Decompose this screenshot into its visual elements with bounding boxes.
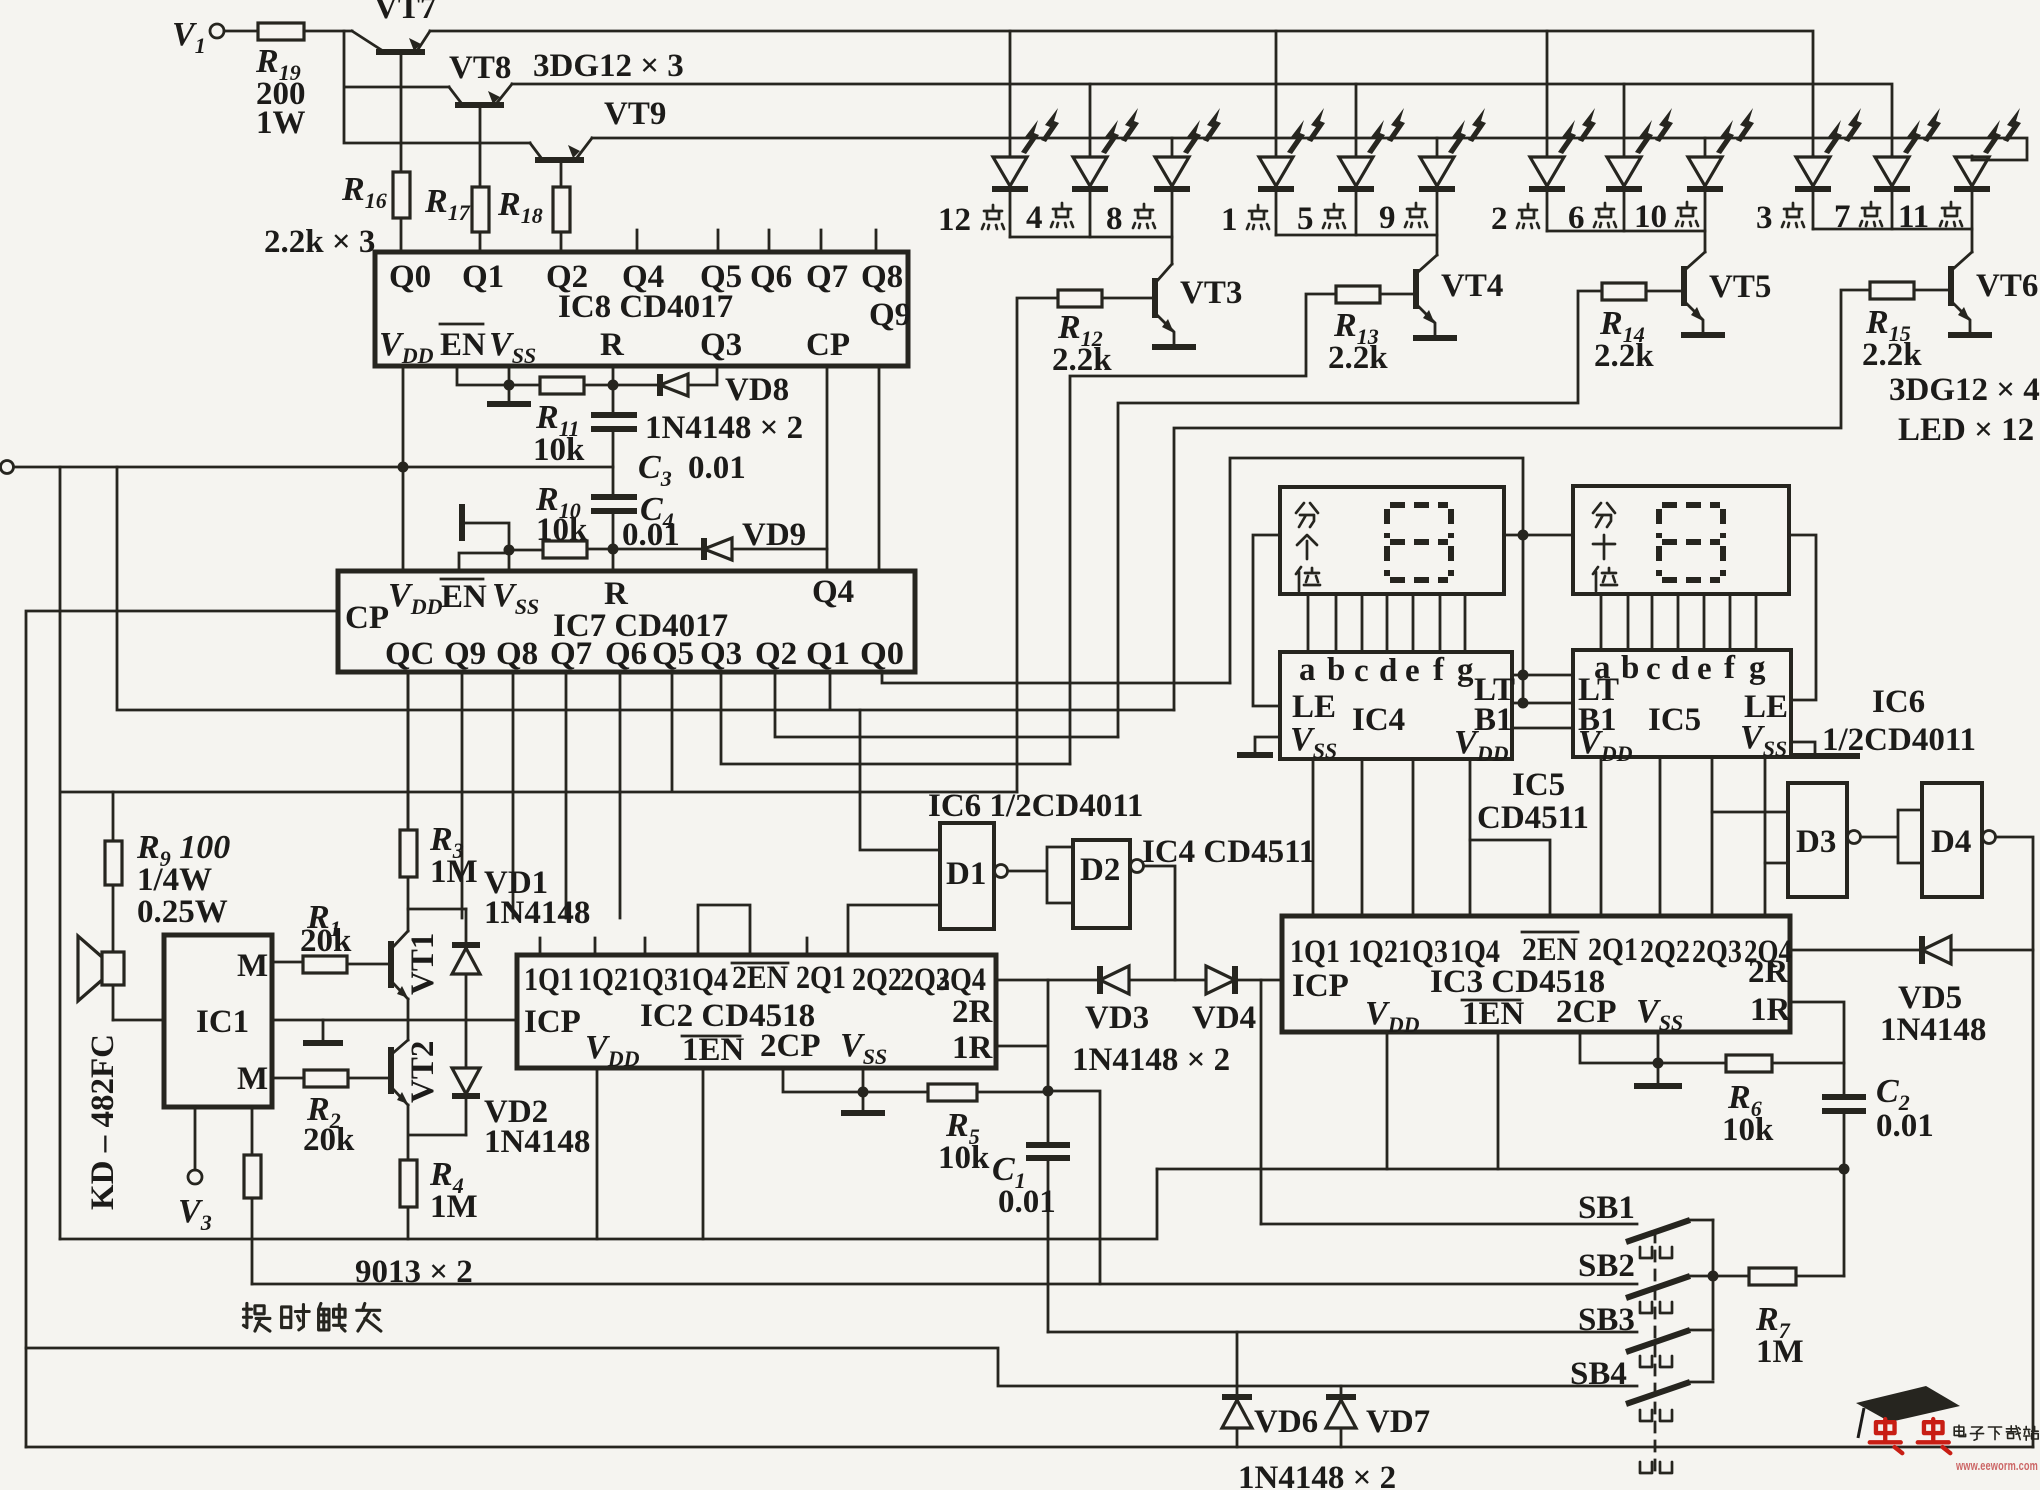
junction C1 node (1043, 1086, 1054, 1097)
svg-text:f: f (1724, 650, 1736, 686)
svg-text:b: b (1327, 652, 1345, 688)
junction B1 (1518, 698, 1529, 709)
svg-text:2Q2: 2Q2 (852, 962, 902, 998)
NAND gate D4 (1922, 783, 1982, 897)
wire R4 to bottom rail (407, 1207, 410, 1239)
resistor R13 2.2k (1336, 286, 1380, 303)
wire to R10 (509, 549, 543, 552)
wire VDD tie (1512, 727, 1573, 730)
svg-text:VD3: VD3 (1085, 1000, 1149, 1036)
svg-text:1Q3: 1Q3 (628, 962, 678, 998)
wire display1 segment pins (1308, 594, 1465, 652)
wire D2 out to IC3 ICP line (1144, 866, 1175, 980)
junction C2 bottom (1839, 1164, 1850, 1175)
wire IC3 2EN tie to 1Q4 (1470, 840, 1550, 916)
svg-text:f: f (1433, 652, 1445, 688)
wire IC7 Q0 line (882, 672, 1230, 683)
resistor R9 (112, 792, 115, 841)
svg-text:LED × 12: LED × 12 (1898, 412, 2034, 448)
LED 6dian (1606, 108, 1673, 231)
wire cathode bus group4 (1813, 229, 1972, 252)
svg-text:R: R (600, 327, 625, 363)
diode VD4 (1192, 966, 1282, 1036)
diode VD2 (452, 1020, 590, 1160)
terminal V3 (194, 1107, 197, 1170)
svg-text:1N4148: 1N4148 (484, 895, 590, 931)
wire display common feed from Q0 line (1230, 458, 1523, 703)
svg-text:1/4W: 1/4W (137, 862, 212, 898)
IC5 CD4511 box (1573, 650, 1791, 757)
wire VT1 emitter to VT2 collector (407, 999, 410, 1040)
wire IC3 2R to VD5 (1790, 949, 1920, 952)
svg-text:2: 2 (1491, 201, 1508, 237)
svg-text:Q0: Q0 (860, 636, 904, 672)
svg-text:Q1: Q1 (462, 259, 504, 295)
wire IC7 Q5 line (60, 467, 1017, 1239)
svg-text:20k: 20k (303, 1122, 355, 1158)
svg-text:2R: 2R (952, 994, 994, 1030)
svg-text:1Q4: 1Q4 (678, 962, 728, 998)
svg-text:SB2: SB2 (1578, 1248, 1635, 1284)
transistor VT1 (391, 931, 441, 999)
svg-text:10k: 10k (536, 512, 588, 548)
svg-text:EN: EN (440, 327, 486, 363)
wire IC3 2CP/VSS node (1580, 1032, 1658, 1063)
LED 11dian (1954, 108, 2021, 229)
svg-text:CD4511: CD4511 (1477, 800, 1589, 836)
resistor R12 2.2k (1058, 290, 1102, 307)
svg-text:D1: D1 (946, 856, 986, 892)
svg-text:1W: 1W (256, 105, 306, 141)
IC7 CD4017 box (338, 571, 915, 672)
svg-text:IC6 1/2CD4011: IC6 1/2CD4011 (928, 788, 1143, 824)
svg-text:VT2: VT2 (405, 1041, 441, 1103)
LED 4dian anode (1089, 84, 1092, 156)
wire IC7 Q6 stub (619, 672, 622, 918)
LED 2dian anode (1546, 31, 1549, 156)
wire cathode bus group3 (1547, 231, 1705, 252)
svg-text:Q4: Q4 (812, 574, 854, 610)
IC8 unused top stubs Q4-Q8 (637, 230, 876, 252)
svg-text:2Q3: 2Q3 (1692, 934, 1742, 970)
capacitor C1 (992, 1091, 1070, 1332)
svg-text:1N4148 × 2: 1N4148 × 2 (645, 410, 803, 446)
svg-text:D4: D4 (1931, 824, 1971, 860)
svg-text:3: 3 (1756, 200, 1773, 236)
ground IC3 VSS (1657, 1063, 1660, 1082)
wire VT1 collector node to VD1 (408, 908, 466, 911)
svg-text:CP: CP (806, 327, 850, 363)
transistor VT6 (1948, 252, 2038, 335)
speaker (112, 885, 115, 952)
resistor R18 (553, 187, 570, 232)
svg-text:VT4: VT4 (1441, 268, 1503, 304)
capacitor C4 (591, 491, 680, 553)
svg-text:SB1: SB1 (1578, 1190, 1635, 1226)
wire R7 to C2 column (1796, 1275, 1844, 1278)
wire D3 input1 from IC5 c column (1712, 811, 1788, 814)
svg-text:d: d (1379, 653, 1397, 689)
svg-text:IC5: IC5 (1512, 767, 1565, 803)
svg-text:1Q2: 1Q2 (1348, 934, 1398, 970)
wire R19 to VT7 base node (304, 30, 352, 33)
switch actuator dashed link (1654, 1232, 1657, 1475)
wire IC2 1Q4-2EN bridge (698, 905, 750, 955)
wire IC7 Q8 stub (512, 672, 515, 918)
wire display commons tie (1504, 534, 1573, 537)
NAND gate D2 (1073, 840, 1130, 928)
wire rail2 from VT8 (512, 84, 1892, 156)
svg-text:Q0: Q0 (389, 259, 431, 295)
svg-text:0.01: 0.01 (998, 1184, 1056, 1220)
wire D3 input2 from IC5 d column (1765, 862, 1788, 865)
ground at IC8 VSS (508, 385, 511, 401)
wire R6 to C2 column (1772, 1062, 1844, 1065)
resistor R14 2.2k (1602, 283, 1646, 300)
IC8 CD4017 box (375, 252, 908, 366)
svg-text:B1: B1 (1474, 702, 1513, 738)
wire QC to R3 (407, 672, 410, 830)
svg-text:1M: 1M (430, 1189, 478, 1225)
svg-text:2Q2: 2Q2 (1640, 934, 1690, 970)
open pin marker near IC7 EN (459, 504, 465, 541)
wire D1 input2 from IC2 2Q2 (848, 905, 940, 955)
wire IC8 EN to reset line (457, 366, 540, 385)
resistor R10 10k (543, 541, 587, 558)
wire R15 to VT6 base (1914, 289, 1949, 292)
svg-text:1M: 1M (430, 854, 478, 890)
svg-text:0.01: 0.01 (1876, 1108, 1934, 1144)
wire IC7 R stub (612, 549, 615, 571)
wire IC3 1EN stub (1497, 1032, 1500, 1169)
svg-text:2.2k: 2.2k (1862, 337, 1922, 373)
svg-text:c: c (1646, 651, 1661, 687)
diode VD9 (704, 517, 827, 560)
LED 7dian anode (1891, 155, 1894, 158)
ground IC4 VSS (1255, 737, 1280, 752)
junction IC2 VSS (858, 1087, 869, 1098)
wire R14 to VT5 base (1646, 290, 1682, 293)
capacitor C3 (591, 385, 746, 496)
IC4 CD4511 box (1280, 652, 1512, 759)
wire IC8 VSS stub (508, 366, 511, 385)
wire R13 to VT4 base (1380, 293, 1414, 296)
wire R5 to C1 node (977, 1091, 1048, 1094)
NAND gate D1 (940, 823, 994, 929)
wire IC8 Q9 to IC7 column (878, 366, 881, 571)
svg-text:3DG12 × 3: 3DG12 × 3 (533, 48, 684, 84)
svg-text:Q7: Q7 (806, 259, 848, 295)
svg-text:R: R (604, 576, 629, 612)
svg-text:b: b (1621, 650, 1639, 686)
wire speaker to IC1 (113, 1019, 164, 1022)
svg-text:e: e (1697, 651, 1712, 687)
svg-text:CP: CP (345, 600, 389, 636)
svg-text:1N4148 × 2: 1N4148 × 2 (1238, 1460, 1396, 1490)
svg-text:IC5: IC5 (1648, 702, 1701, 738)
svg-text:12: 12 (938, 202, 971, 238)
svg-text:g: g (1457, 652, 1474, 688)
svg-text:M: M (237, 948, 268, 984)
wire R16 R17 R18 to IC8 (401, 218, 561, 252)
LED 7dian (1874, 108, 1941, 229)
wire D1 input1 from Q1 line (860, 710, 940, 850)
svg-text:SB4: SB4 (1570, 1356, 1627, 1392)
svg-text:Q9: Q9 (444, 636, 486, 672)
wire IC7 EN bend (459, 553, 509, 571)
transistor VT5 (1681, 252, 1771, 335)
IC2 top stubs (540, 938, 807, 955)
wire IC7 Q1 line (117, 467, 1174, 710)
wire IC3 VDD stub (1386, 1032, 1389, 1169)
svg-text:2EN: 2EN (1522, 932, 1578, 968)
IC3 CD4518 box (1282, 916, 1790, 1032)
resistor R2 20k (304, 1070, 348, 1087)
wire R11 to R node (584, 384, 658, 387)
wire IC7 VSS stub (508, 550, 511, 571)
svg-text:VD9: VD9 (742, 517, 806, 553)
svg-text:10k: 10k (1722, 1112, 1774, 1148)
transistor VT8 (449, 50, 512, 187)
svg-text:VT7: VT7 (374, 0, 436, 26)
wire IC7 Q7 stub (565, 672, 568, 918)
LED 3dian (1795, 108, 1862, 229)
svg-text:2CP: 2CP (1556, 994, 1617, 1030)
junction R10 left (504, 545, 515, 556)
transistor VT7 (352, 0, 436, 172)
wire VSS node to R6 (1658, 1062, 1726, 1065)
junction C4/R10/VD9 (608, 544, 619, 555)
ground IC2 VSS (862, 1092, 865, 1110)
7seg digit ones (1387, 505, 1451, 580)
wire IC3 1R to C2 column (1790, 1002, 1844, 1096)
IC2 CD4518 box (517, 955, 996, 1068)
wire IC2 1EN to rail (702, 1068, 705, 1239)
svg-text:2EN: 2EN (732, 960, 788, 996)
wire IC4 BCD pins to IC3 (1313, 759, 1470, 916)
svg-text:D3: D3 (1796, 824, 1836, 860)
wire bottom rail link (60, 1169, 1157, 1239)
LED 10dian (1687, 108, 1754, 231)
svg-text:1Q1: 1Q1 (1290, 934, 1340, 970)
junction IC3 VSS (1653, 1058, 1664, 1069)
diode VD7 (1326, 1386, 1430, 1447)
svg-text:Q8: Q8 (496, 636, 538, 672)
junction VDD column (398, 462, 409, 473)
label chime trigger (243, 1303, 380, 1331)
svg-text:IC4: IC4 (1352, 702, 1405, 738)
wire IC2 VDD to rail (596, 1068, 599, 1239)
svg-text:ICP: ICP (1292, 968, 1349, 1004)
svg-text:Q9: Q9 (869, 297, 911, 333)
wire VDD column IC8 to IC7 (402, 366, 405, 571)
LED 8dian anode (1171, 138, 1174, 156)
wire rail3 from VT9 (592, 138, 2027, 160)
transistor VT4 (1413, 255, 1503, 338)
wire rail1 from VT7 (430, 31, 1813, 156)
svg-text:5: 5 (1297, 201, 1314, 237)
svg-text:8: 8 (1106, 201, 1123, 237)
resistor R3 1M (400, 830, 417, 877)
terminal input left (1, 461, 14, 474)
svg-text:2CP: 2CP (760, 1028, 821, 1064)
svg-text:VT3: VT3 (1180, 275, 1242, 311)
junction IC8 VSS/EN (504, 380, 515, 391)
svg-text:a: a (1299, 652, 1316, 688)
svg-text:www.eeworm.com: www.eeworm.com (1955, 1458, 2038, 1473)
wire vertical bus to VT8/VT9 bases (344, 31, 530, 143)
svg-text:20k: 20k (300, 923, 352, 959)
ground cap at IC1 mid (322, 1020, 325, 1040)
resistor R15 2.2k (1870, 282, 1914, 299)
svg-text:1R: 1R (952, 1030, 994, 1066)
svg-text:Q2: Q2 (755, 636, 797, 672)
svg-text:Q5: Q5 (652, 636, 694, 672)
LED 3dian anode (1812, 155, 1815, 158)
LED 10dian anode (1704, 138, 1707, 156)
switch SB3 (1578, 1302, 1713, 1367)
wire IC2 2CP/VSS ground node (783, 1068, 863, 1092)
wire B1 tie (1512, 702, 1573, 705)
wire R1 to VT1 base (347, 963, 389, 966)
svg-text:Q6: Q6 (605, 636, 647, 672)
wire IC2 1R to C1 node (996, 980, 1048, 1091)
svg-text:c: c (1354, 653, 1369, 689)
svg-text:1N4148: 1N4148 (484, 1124, 590, 1160)
svg-text:Q1: Q1 (806, 636, 850, 672)
wire display2 LE loop (1789, 535, 1816, 700)
wire R10 right to node (587, 548, 704, 551)
LED 8dian (1154, 108, 1221, 237)
LED 5dian anode (1355, 84, 1358, 156)
wire SB3 line from C1 (1048, 1331, 1637, 1334)
resistor R1 20k (303, 956, 347, 973)
svg-text:VT9: VT9 (604, 96, 666, 132)
wire R12 feed from Q5 line (1017, 298, 1058, 792)
LED 4dian (1072, 108, 1139, 237)
junction SB2/bus (1708, 1271, 1719, 1282)
svg-text:2R: 2R (1748, 954, 1790, 990)
wire IC7 QC to R3 (407, 672, 410, 830)
terminal V1 (210, 24, 224, 38)
svg-text:VD6: VD6 (1254, 1404, 1318, 1440)
svg-text:2.2k × 3: 2.2k × 3 (264, 224, 375, 260)
svg-text:1M: 1M (1756, 1334, 1804, 1370)
wire IC1 M1 to R1 (272, 961, 303, 964)
wire R2 to VT2 base (348, 1077, 389, 1080)
resistor R17 (472, 187, 489, 232)
wire IC1 mid to ICP line (272, 1019, 517, 1022)
7seg digit tens (1659, 505, 1723, 580)
LED 12dian anode (1009, 31, 1012, 156)
wire IC8 CP to IC7 Q4 column (826, 366, 829, 571)
svg-text:IC6: IC6 (1872, 684, 1925, 720)
svg-text:4: 4 (1026, 200, 1043, 236)
LED 12dian (992, 108, 1059, 237)
svg-text:VT6: VT6 (1976, 268, 2038, 304)
resistor R7 1M (1749, 1268, 1796, 1285)
wire IC7 Q2 line (775, 672, 1118, 737)
svg-text:VD5: VD5 (1898, 980, 1962, 1016)
svg-text:M: M (237, 1061, 268, 1097)
display minutes-ones box (1280, 487, 1504, 594)
wire IC1 M2 to R2 (272, 1077, 304, 1080)
svg-text:2.2k: 2.2k (1328, 340, 1388, 376)
resistor R5 10k (928, 1084, 977, 1101)
svg-text:1N4148: 1N4148 (1880, 1012, 1986, 1048)
junction R11/C3/R pin (608, 380, 619, 391)
svg-text:D2: D2 (1080, 852, 1120, 888)
wire VSS node to R5 (863, 1091, 928, 1094)
svg-text:Q3: Q3 (700, 327, 742, 363)
transistor VT2 (391, 1040, 441, 1105)
resistor R6 10k (1726, 1055, 1772, 1072)
NAND gate D3 (1788, 783, 1847, 897)
resistor R11 10k (540, 377, 584, 394)
svg-text:2.2k: 2.2k (1594, 338, 1654, 374)
resistor R4 1M (400, 1160, 417, 1207)
svg-text:IC8 CD4017: IC8 CD4017 (558, 289, 733, 325)
svg-text:9: 9 (1379, 200, 1396, 236)
wire R15 feed from Q1 line (1174, 290, 1870, 710)
svg-text:2Q4: 2Q4 (936, 962, 986, 998)
wire setting line y1169 (1157, 1168, 1844, 1171)
svg-text:1R: 1R (1750, 992, 1792, 1028)
svg-text:1Q1: 1Q1 (524, 962, 574, 998)
watermark logo (1856, 1386, 2038, 1473)
wire SB4 line from CP net (26, 1348, 1637, 1386)
svg-text:IC1: IC1 (196, 1004, 249, 1040)
svg-text:EN: EN (441, 579, 487, 615)
svg-text:KD – 482FC: KD – 482FC (85, 1034, 121, 1210)
svg-text:VT8: VT8 (449, 50, 511, 86)
LED 5dian (1338, 108, 1405, 235)
svg-text:10k: 10k (938, 1140, 990, 1176)
wire R3 to VT1 collector (407, 877, 410, 931)
wire R12 to VT3 base (1102, 297, 1153, 300)
wire cathode bus group1 (1010, 237, 1172, 264)
LED 6dian anode (1623, 84, 1626, 156)
svg-text:VT1: VT1 (405, 933, 441, 995)
svg-text:3DG12 × 4: 3DG12 × 4 (1889, 372, 2040, 408)
svg-text:2Q1: 2Q1 (1588, 932, 1638, 968)
wire D1 out to D2 inputs (1008, 847, 1073, 903)
svg-text:g: g (1749, 650, 1766, 686)
transistor VT3 (1152, 264, 1242, 347)
resistor R19 (258, 23, 304, 40)
capacitor C2 (1822, 1073, 1934, 1276)
svg-text:LE: LE (1292, 689, 1336, 725)
LED 1dian anode (1275, 31, 1278, 156)
LED 2dian (1529, 108, 1596, 231)
diode VD3 (1085, 966, 1206, 1036)
diode VD1 (452, 865, 590, 1020)
svg-text:Q3: Q3 (700, 636, 742, 672)
wire C1 node tap to SB2 line (1048, 1091, 1100, 1284)
svg-text:d: d (1671, 651, 1689, 687)
wire IC5 BCD pins to IC3 (1601, 757, 1765, 916)
svg-text:VD7: VD7 (1366, 1404, 1430, 1440)
wire D4 out to right bus (1996, 837, 2033, 1447)
switch SB2 (1578, 1248, 1749, 1313)
svg-text:e: e (1405, 653, 1420, 689)
LED 11dian anode (1971, 156, 1974, 160)
wire LT tie (1512, 674, 1573, 677)
LED 9dian anode (1436, 138, 1439, 156)
wire V1 to R19 (224, 30, 258, 33)
diode VD5 (1880, 936, 2033, 1048)
svg-text:VD8: VD8 (725, 372, 789, 408)
